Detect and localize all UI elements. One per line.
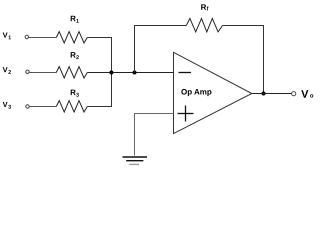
op-amp non-inverting input plus sign <box>178 106 194 122</box>
wire feedback up-left <box>135 26 187 73</box>
svg-text:f: f <box>207 6 209 12</box>
node V3 input label <box>3 100 12 111</box>
label Rf <box>201 3 209 13</box>
svg-text:Op Amp: Op Amp <box>181 87 212 96</box>
wire feedback right-down to output <box>223 26 264 94</box>
node V1 input label <box>3 31 12 42</box>
svg-text:V: V <box>3 100 8 109</box>
svg-text:1: 1 <box>76 19 79 25</box>
terminal Vo <box>292 92 296 96</box>
wire non-inverting input to ground <box>135 114 174 156</box>
resistor R2 <box>56 67 87 78</box>
wire V1 to R1 <box>29 37 57 39</box>
svg-text:3: 3 <box>8 105 11 111</box>
terminal V2 <box>26 70 29 73</box>
svg-text:2: 2 <box>76 55 79 61</box>
op-amp inverting input minus sign <box>179 72 192 74</box>
wire R3 to node <box>87 73 111 107</box>
svg-text:V: V <box>3 65 8 74</box>
wire op-amp output <box>252 93 292 95</box>
resistor Rf <box>186 18 222 32</box>
wire R2 to op-amp inverting input <box>87 72 173 74</box>
op-amp U1 triangle <box>174 52 252 133</box>
label R3 <box>70 88 79 99</box>
terminal V1 <box>25 35 28 38</box>
svg-text:1: 1 <box>8 35 11 41</box>
ground <box>123 157 148 164</box>
node V2 input label <box>3 65 12 76</box>
label R2 <box>70 51 79 62</box>
svg-text:3: 3 <box>76 93 79 99</box>
junction dot feedback tap <box>133 71 137 75</box>
wire R1 to node <box>87 38 111 73</box>
terminal V3 <box>26 105 29 108</box>
node Vo output label <box>301 89 314 101</box>
wire V2 to R2 <box>29 72 56 74</box>
svg-text:2: 2 <box>8 70 11 76</box>
junction dot output <box>262 92 266 96</box>
resistor R3 <box>56 101 87 112</box>
junction dot summing node <box>109 71 113 75</box>
label R1 <box>70 14 79 25</box>
svg-text:V: V <box>3 31 8 40</box>
svg-text:o: o <box>310 94 314 100</box>
svg-text:V: V <box>301 89 309 101</box>
wire V3 to R3 <box>29 106 56 108</box>
resistor R1 <box>56 32 87 43</box>
